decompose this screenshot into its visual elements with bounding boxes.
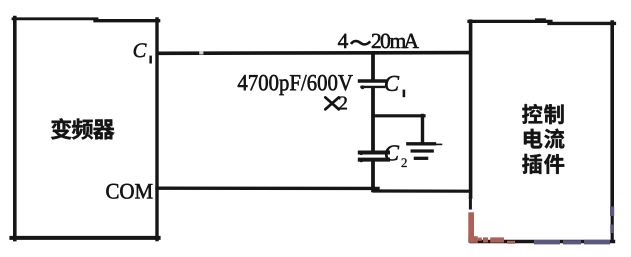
label: multiplication sign of x2 (drawn) — [325, 97, 339, 109]
label: tilde of 4~20mA (drawn wave) — [351, 41, 370, 44]
ground symbol (three bars) — [408, 144, 442, 159]
label: COM terminal name inside left box — [106, 184, 118, 199]
label: 4700pF/600V value — [238, 75, 248, 90]
label: C1 capacitor designator — [385, 76, 399, 91]
wire: bottom COM return line, right segment to right box — [374, 189, 470, 192]
box U2: control current plug-in (right box outline) — [469, 20, 614, 242]
label: C1 terminal name inside left box — [134, 43, 147, 57]
label: "4" of 4~20mA — [338, 34, 348, 48]
label: 变频器 (inverter) in left box — [51, 118, 114, 139]
watermark: blue dashes along bottom and right edge of right box — [534, 207, 614, 245]
watermark: red L-shape over bottom-left corner of right box — [468, 212, 515, 244]
label: C2 capacitor designator — [385, 145, 399, 160]
wire: branch from node to ground stem — [373, 116, 424, 144]
wire: vertical drop from top wire to capacitor C1 — [371, 53, 375, 80]
wire scan nick on top wire — [199, 51, 203, 54]
label: 插件 line 3 in right box — [522, 154, 564, 174]
label: 控制 line 1 in right box — [522, 104, 563, 124]
label: 电流 line 2 in right box — [524, 129, 564, 149]
box U1: inverter (left box outline) — [11, 18, 158, 240]
capacitor C1 plates — [360, 81, 386, 89]
wire: vertical segment between C1 and C2 — [371, 88, 375, 152]
capacitor C2 plates — [359, 151, 388, 162]
wire: bottom COM return line, left segment from left box — [157, 186, 378, 190]
wire: top signal line (4~20mA) from left box to right box — [159, 51, 470, 55]
wire: vertical below C2 down to bottom wire — [371, 160, 375, 190]
label: "2" of x2 — [339, 96, 347, 109]
label: "20mA" of 4~20mA — [372, 34, 381, 48]
